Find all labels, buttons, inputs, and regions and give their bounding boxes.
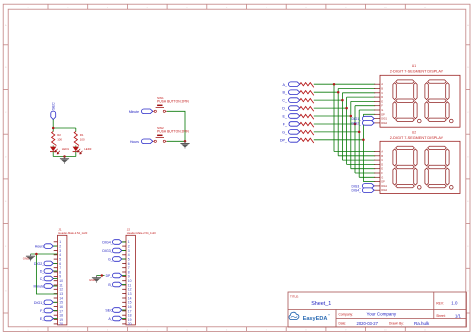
port Minute (129, 109, 153, 114)
port DIG2_ (J1) (34, 261, 53, 266)
pin 15 of J2 (122, 301, 126, 303)
svg-text:15: 15 (59, 301, 63, 305)
wire net A_ to U1 pin (334, 83, 375, 85)
svg-text:U1: U1 (412, 64, 416, 68)
pin 7 of J1 (54, 267, 58, 269)
ground (J1) (26, 254, 35, 261)
wire net D_ to U1 pin (347, 96, 376, 98)
wire net E_ vertical (350, 101, 352, 168)
svg-text:Header-Male-2.54_1x20: Header-Male-2.54_1x20 (127, 231, 156, 235)
pin 2 of J1 (54, 245, 58, 247)
wire net F_ row (314, 123, 355, 125)
svg-text:D: D (381, 163, 383, 166)
svg-text:J2: J2 (127, 228, 131, 232)
port SEC (J2) (105, 308, 121, 313)
wire Minute to J1 (53, 285, 57, 287)
wire net E_ row (314, 115, 351, 117)
svg-text:G: G (381, 176, 383, 179)
svg-text:10: 10 (128, 279, 132, 283)
port DP_ (J2) (106, 273, 122, 278)
wire SEC to J2 (122, 309, 126, 311)
svg-text:PUSH BUTTON 2PIN: PUSH BUTTON 2PIN (157, 130, 189, 134)
pin 16 of J2 (122, 306, 126, 308)
svg-text:DIG2_: DIG2_ (351, 121, 361, 125)
pin 19 of J1 (54, 319, 58, 321)
pin 8 (DP) of U1 (374, 113, 380, 115)
svg-text:G: G (467, 291, 469, 293)
pin 6 (F) of U1 (374, 105, 380, 107)
svg-text:LED1: LED1 (62, 147, 70, 151)
pin 5 of J2 (122, 258, 126, 260)
junction net DP_ (362, 139, 365, 142)
pin 6 of J2 (122, 262, 126, 264)
ground (buttons) (180, 141, 189, 148)
pin 15 of J1 (54, 301, 58, 303)
svg-text:100: 100 (80, 137, 85, 141)
wire Hours to J1 (53, 245, 57, 247)
wire B_ to J2 (122, 284, 126, 286)
EasyEDA logo (289, 312, 330, 322)
port B_ (282, 90, 299, 95)
port A_ (282, 82, 299, 87)
junction net C_ (341, 99, 344, 102)
wire net DP_ to U1 pin (363, 113, 375, 115)
pin 10 (DIG2) of U2 (374, 189, 380, 191)
pin 14 of J2 (122, 297, 126, 299)
wire bottom rail (53, 156, 76, 158)
svg-text:Hours: Hours (130, 140, 139, 144)
svg-text:DP_: DP_ (280, 138, 288, 142)
pin 7 (G) of U1 (374, 109, 380, 111)
wire DIG4_ to J2 (122, 241, 126, 243)
svg-text:5: 5 (128, 257, 130, 261)
wire net F_ vertical (354, 106, 356, 173)
wire net D_ to U2 pin (347, 163, 376, 165)
pin 8 of J1 (54, 271, 58, 273)
pin 4 (D) of U2 (374, 163, 380, 165)
pin 9 (DIG1) of U2 (374, 185, 380, 187)
pin 5 (E) of U2 (374, 168, 380, 170)
port D_ (J1) (40, 269, 54, 274)
junction at bottom rail (63, 155, 66, 158)
svg-text:10: 10 (59, 279, 63, 283)
resistor (segment F) (300, 122, 314, 127)
wire net C_ vertical (341, 93, 343, 160)
wire net C_ row (314, 99, 343, 101)
svg-text:Minute: Minute (34, 285, 45, 289)
svg-text:PUSH BUTTON 2PIN: PUSH BUTTON 2PIN (157, 100, 189, 104)
wire net F_ to U2 pin (355, 172, 375, 174)
pin 17 of J2 (122, 310, 126, 312)
pin 3 (C) of U1 (374, 92, 380, 94)
svg-text:5: 5 (59, 257, 61, 261)
port Hours (J1) (35, 244, 54, 249)
wire LED1 to bottom rail (52, 152, 54, 157)
pin 7 of J2 (122, 267, 126, 269)
pin 1 (A) of U1 (374, 83, 380, 85)
port C_ (J1) (40, 276, 54, 281)
wire GND to J1 pin4 (31, 253, 58, 255)
svg-text:2-DIGIT 7-SEGMENT DISPLAY: 2-DIGIT 7-SEGMENT DISPLAY (390, 136, 444, 140)
svg-text:Hours: Hours (35, 245, 45, 249)
wire net G_ to U1 pin (359, 109, 375, 111)
pin 10 of J1 (54, 280, 58, 282)
svg-text:1.0: 1.0 (451, 301, 458, 306)
resistor (segment E) (300, 114, 314, 119)
svg-text:100: 100 (57, 137, 62, 141)
port DIG1_ (351, 116, 374, 121)
wire net E_ to U1 pin (351, 100, 375, 102)
svg-text:U2: U2 (412, 131, 416, 135)
wire rail to R2 (52, 128, 54, 132)
pin 14 of J1 (54, 297, 58, 299)
svg-text:2020-03-27: 2020-03-27 (357, 321, 379, 326)
port A_ (J2) (108, 316, 121, 321)
port B_ (J2) (108, 282, 121, 287)
junction GND J1 (35, 253, 38, 256)
svg-text:DIG2: DIG2 (381, 189, 387, 192)
pin 10 (DIG2) of U1 (374, 122, 380, 124)
pin 18 of J2 (122, 314, 126, 316)
svg-text:TITLE:: TITLE: (290, 294, 299, 298)
port Minute (J1) (34, 284, 54, 289)
pin 20 of J2 (122, 323, 126, 325)
resistor (segment C) (300, 99, 314, 104)
wire net A_ vertical (333, 84, 335, 151)
wire R2 to LED1 (52, 146, 54, 147)
wire A_ to J2 (122, 318, 126, 320)
svg-text:J1: J1 (58, 228, 62, 232)
pin 3 (C) of U2 (374, 159, 380, 161)
wire net B_ to U2 pin (338, 155, 375, 157)
wire LED3 to bottom rail (75, 152, 77, 157)
pin 11 of J1 (54, 284, 58, 286)
pin 13 of J1 (54, 293, 58, 295)
svg-text:DP: DP (381, 113, 385, 116)
svg-text:G: G (5, 291, 7, 293)
pin 9 (DIG1) of U1 (374, 118, 380, 120)
port DIG2_ (351, 121, 374, 126)
7-segment display U1 (374, 64, 460, 127)
svg-text:Ra.hulk: Ra.hulk (414, 321, 430, 326)
pin 1 of J2 (122, 241, 126, 243)
pin 4 of J2 (122, 254, 126, 256)
svg-text:Header-Male-2.54_1x20: Header-Male-2.54_1x20 (58, 231, 87, 235)
wire SW2 to common (167, 140, 185, 142)
pin 4 (D) of U1 (374, 96, 380, 98)
svg-text:DIG1: DIG1 (381, 118, 387, 121)
pin 18 of J1 (54, 314, 58, 316)
switch SW2 PUSH BUTTON 2PIN (153, 126, 190, 142)
junction net A_ (333, 83, 336, 86)
wire net F_ to U1 pin (355, 105, 375, 107)
wire G_ to J2 (122, 258, 126, 260)
svg-text:2-DIGIT 7-SEGMENT DISPLAY: 2-DIGIT 7-SEGMENT DISPLAY (390, 69, 444, 73)
junction net D_ (345, 107, 348, 110)
wire net D_ row (314, 107, 347, 109)
port E_ (282, 114, 299, 119)
pin 6 of J1 (54, 262, 58, 264)
svg-text:D: D (381, 96, 383, 99)
resistor (segment D) (300, 107, 314, 112)
wire GND/DP_ to J2 pin9 (97, 275, 105, 277)
wire net DP_ vertical (362, 114, 364, 181)
wire SEC port to rail (52, 120, 54, 129)
wire D_ to J1 (53, 270, 57, 272)
svg-text:DIG3_: DIG3_ (102, 249, 113, 253)
junction net B_ (337, 91, 340, 94)
port DIG4_ (351, 188, 374, 193)
svg-text:LED3: LED3 (84, 147, 92, 151)
svg-text:Date:: Date: (339, 322, 347, 326)
wire top rail (53, 127, 76, 129)
pin 5 (E) of U1 (374, 100, 380, 102)
wire net D_ vertical (346, 97, 348, 164)
resistor (segment DP) (300, 138, 314, 143)
wire net G_ to U2 pin (359, 176, 375, 178)
junction net G_ (358, 131, 361, 134)
port G_ (282, 130, 300, 135)
pin 8 (DP) of U2 (374, 181, 380, 183)
title block (288, 292, 466, 327)
svg-text:SEC: SEC (52, 102, 56, 110)
svg-text:20: 20 (59, 322, 63, 326)
svg-text:DIG1_: DIG1_ (34, 301, 45, 305)
7-segment display U2 (374, 131, 460, 194)
pin 8 of J2 (122, 271, 126, 273)
wire GND down to J1 pin13 (36, 254, 57, 294)
wire net G_ vertical (358, 110, 360, 177)
pin 1 (A) of U2 (374, 151, 380, 153)
port F_ (J1) (40, 308, 53, 313)
pin 10 of J2 (122, 280, 126, 282)
pin 7 (G) of U2 (374, 176, 380, 178)
svg-text:REV:: REV: (436, 301, 444, 305)
resistor R1 (74, 132, 85, 146)
port DIG3_ (J2) (102, 248, 121, 253)
svg-text:DIG1: DIG1 (381, 185, 387, 188)
svg-text:C: C (381, 92, 383, 95)
pin 13 of J2 (122, 293, 126, 295)
pin 5 of J1 (54, 258, 58, 260)
pin 20 of J1 (54, 323, 58, 325)
junction at SEC rail (52, 127, 55, 130)
pin 1 of J1 (54, 241, 58, 243)
pin 2 (B) of U2 (374, 155, 380, 157)
pin 9 of J2 (122, 275, 126, 277)
svg-text:Sheet_1: Sheet_1 (311, 301, 331, 307)
wire DP_ port to J2 pin9 (122, 275, 126, 277)
wire F_ to J1 (53, 310, 57, 312)
junction buttons common (184, 140, 187, 143)
svg-text:Drawn By:: Drawn By: (389, 322, 404, 326)
title block labels (290, 294, 461, 326)
svg-text:DIG4_: DIG4_ (351, 189, 361, 193)
svg-text:GND: GND (89, 278, 95, 282)
svg-text:C: C (381, 159, 383, 162)
pin 4 of J1 (54, 254, 58, 256)
wire net C_ to U2 pin (342, 159, 375, 161)
wire C_ to J1 (53, 278, 57, 280)
wire net DP_ to U2 pin (363, 181, 375, 183)
junction net F_ (354, 123, 357, 126)
ground (J2) (92, 276, 101, 283)
connector J2 Header-Male-2.54_1x20 (122, 228, 156, 327)
wire net G_ row (314, 131, 359, 133)
svg-text:Sheet:: Sheet: (436, 314, 445, 318)
wire net B_ row (314, 91, 338, 93)
pin 2 (B) of U1 (374, 88, 380, 90)
svg-text:DP_: DP_ (106, 274, 113, 278)
svg-text:20: 20 (128, 322, 132, 326)
svg-text:DP: DP (381, 181, 385, 184)
pin 12 of J2 (122, 288, 126, 290)
port DIG1_ (J1) (34, 300, 53, 305)
wire net A_ to U2 pin (334, 151, 375, 153)
port C_ (282, 98, 300, 103)
pin 3 of J2 (122, 249, 126, 251)
pin 12 of J1 (54, 288, 58, 290)
svg-text:DIG2: DIG2 (381, 122, 387, 125)
pin 6 (F) of U2 (374, 172, 380, 174)
svg-text:DIG4_: DIG4_ (102, 241, 113, 245)
port DIG4_ (J2) (102, 240, 121, 245)
connector J1 Header-Male-2.54_1x20 (54, 228, 88, 327)
resistor (segment A) (300, 83, 314, 88)
svg-text:GND: GND (23, 256, 29, 260)
port E_ (J1) (40, 316, 53, 321)
wire net B_ vertical (337, 89, 339, 156)
port G_ (J2) (108, 257, 122, 262)
pin 11 of J2 (122, 284, 126, 286)
svg-text:DIG2_: DIG2_ (34, 262, 45, 266)
wire DIG3_ to J2 (122, 250, 126, 252)
pin 16 of J1 (54, 306, 58, 308)
switch SW1 PUSH BUTTON 2PIN (153, 96, 190, 112)
wire E_ to J1 (53, 318, 57, 320)
pin 2 of J2 (122, 245, 126, 247)
pin 19 of J2 (122, 319, 126, 321)
port SEC (pointing down) (51, 111, 56, 119)
wire R1 to LED3 (75, 146, 77, 147)
svg-text:Company:: Company: (339, 312, 354, 316)
wire net E_ to U2 pin (351, 168, 375, 170)
resistor (segment G) (300, 130, 314, 135)
svg-text:SEC: SEC (105, 309, 113, 313)
resistor (segment B) (300, 91, 314, 96)
svg-text:Your Company: Your Company (367, 312, 397, 317)
ground (LED rail) (60, 157, 69, 164)
resistor R2 (52, 132, 63, 146)
svg-text:1/1: 1/1 (455, 313, 461, 318)
port DP_ (280, 138, 300, 143)
LED LED1 (50, 147, 69, 154)
svg-text:EasyEDA: EasyEDA (303, 316, 328, 322)
wire net DP_ row (314, 139, 364, 141)
svg-text:G: G (381, 109, 383, 112)
port F_ (283, 122, 300, 127)
wire DIG1_ to J1 (53, 301, 57, 303)
pin 9 of J1 (54, 275, 58, 277)
wire SW1 to common (167, 111, 185, 141)
svg-text:DIG1_: DIG1_ (351, 117, 361, 121)
wire net B_ to U1 pin (338, 88, 375, 90)
port Hours (130, 139, 153, 144)
wire DIG2_ to J1 (53, 262, 57, 264)
wire net A_ row (314, 83, 334, 85)
port DIG3_ (351, 184, 374, 189)
svg-text:15: 15 (128, 301, 132, 305)
pin 17 of J1 (54, 310, 58, 312)
pin 3 of J1 (54, 249, 58, 251)
wire net C_ to U1 pin (342, 92, 375, 94)
port D_ (282, 106, 300, 111)
LED LED3 (73, 147, 92, 154)
junction net E_ (350, 115, 353, 118)
wire rail to R1 (75, 128, 77, 132)
junction GND J2 (101, 274, 104, 277)
svg-text:Minute: Minute (129, 110, 139, 114)
